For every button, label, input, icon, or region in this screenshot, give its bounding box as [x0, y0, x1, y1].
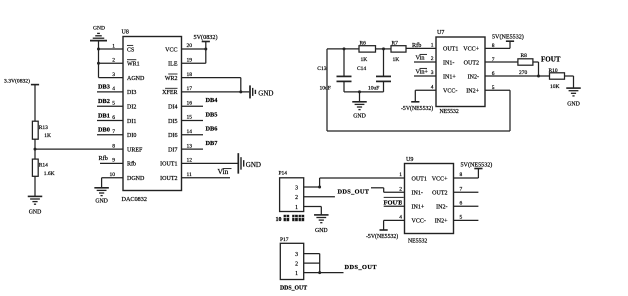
wire (caps to ground) — [359, 92, 361, 102]
wire (U8 pin 5 stub) — [97, 105, 123, 107]
svg-text:GND: GND — [258, 89, 273, 97]
svg-text:VCC-: VCC- — [412, 219, 426, 225]
wire (U7 pin 8 to 5V) — [485, 41, 510, 48]
svg-text:DB3: DB3 — [98, 84, 110, 91]
svg-text:5V(NE5532): 5V(NE5532) — [492, 34, 524, 41]
node (caps ground junction) — [358, 90, 361, 93]
wire (U8 pin 11 IOUT2 stub) — [182, 177, 231, 179]
svg-text:VCC+: VCC+ — [463, 47, 479, 53]
svg-text:6: 6 — [460, 201, 463, 207]
wire (U8 pin 18 WR2 to ground net) — [182, 78, 241, 92]
svg-text:7: 7 — [460, 187, 463, 193]
IC U8 DAC0832 — [110, 30, 193, 204]
wire (U9 pin 6 stub) — [454, 205, 479, 207]
svg-text:Rfb: Rfb — [127, 161, 136, 168]
svg-text:DB7: DB7 — [206, 140, 218, 147]
node (junction pin 20) — [204, 48, 207, 51]
svg-text:DB4: DB4 — [206, 97, 219, 104]
node (divider junction to UREF) — [34, 148, 37, 151]
svg-text:GND: GND — [315, 228, 328, 234]
svg-text:GND: GND — [93, 26, 105, 32]
svg-text:19: 19 — [187, 58, 193, 64]
svg-text:1: 1 — [295, 205, 298, 211]
svg-text:3.3V(0832): 3.3V(0832) — [4, 78, 30, 85]
svg-text:NE5532: NE5532 — [408, 239, 427, 245]
wire (U8 pin 14 stub) — [182, 134, 204, 136]
svg-text:IN1+: IN1+ — [412, 205, 425, 211]
wire (U9 pin 3 stub) — [384, 205, 405, 207]
wire (R14 to ground) — [34, 176, 36, 196]
capacitor C13 10uF — [317, 49, 351, 92]
wire (R13/R14 divider node to U8 pin 8 UREF) — [35, 148, 123, 150]
wire (U8 pin 16 stub) — [182, 105, 204, 107]
op-amp U7 NE5532 — [431, 30, 495, 115]
node (C14 top junction) — [382, 47, 385, 50]
svg-text:WR1: WR1 — [127, 62, 140, 68]
svg-text:P17: P17 — [280, 237, 289, 243]
wire (U8 pin 4 stub) — [97, 91, 123, 93]
svg-text:DI5: DI5 — [168, 119, 177, 125]
ground (below C13/C14) — [352, 102, 367, 120]
svg-text:DI2: DI2 — [127, 105, 136, 111]
svg-text:DB0: DB0 — [98, 127, 110, 134]
svg-text:DDS_OUT: DDS_OUT — [280, 285, 307, 291]
svg-text:XFER: XFER — [162, 90, 177, 96]
svg-text:OUT1: OUT1 — [412, 176, 427, 182]
svg-text:1: 1 — [431, 43, 434, 49]
svg-text:1: 1 — [295, 271, 298, 277]
svg-text:DB2: DB2 — [98, 98, 110, 105]
op-amp U9 NE5532 — [399, 157, 462, 245]
svg-text:GND: GND — [95, 199, 108, 205]
svg-text:ILE: ILE — [168, 62, 178, 68]
svg-text:WR2: WR2 — [165, 76, 178, 82]
svg-text:IOUT1: IOUT1 — [160, 162, 177, 168]
wire (U9 pin 5 stub) — [454, 219, 479, 221]
ground (below P14) — [314, 215, 329, 234]
svg-text:C14: C14 — [357, 66, 366, 72]
svg-text:1K: 1K — [44, 133, 51, 139]
svg-text:DI4: DI4 — [168, 105, 177, 111]
power flag 5V(0832) — [194, 34, 218, 42]
svg-text:DDS_OUT: DDS_OUT — [345, 264, 378, 271]
svg-text:DDS_OUT: DDS_OUT — [338, 188, 370, 195]
svg-text:Rfb: Rfb — [99, 155, 108, 162]
svg-text:1: 1 — [399, 172, 402, 178]
svg-text:15: 15 — [187, 115, 193, 121]
svg-text:Vin: Vin — [416, 55, 425, 62]
svg-text:DI1: DI1 — [127, 119, 136, 125]
svg-text:R7: R7 — [392, 41, 399, 47]
svg-text:UREF: UREF — [127, 147, 143, 153]
svg-text:17: 17 — [187, 86, 193, 92]
node (junction pin2 bus) — [97, 62, 100, 65]
connector P17 — [280, 237, 304, 280]
svg-text:IN2-: IN2- — [468, 74, 479, 80]
svg-text:DB5: DB5 — [206, 111, 218, 118]
svg-text:VCC-: VCC- — [443, 89, 457, 95]
wire (GND bus to U8 pins 1-3) — [99, 41, 124, 78]
svg-text:5V(0832): 5V(0832) — [194, 34, 218, 41]
svg-text:DB6: DB6 — [206, 126, 218, 133]
ground (top-left GND flag above U8) — [90, 26, 107, 41]
ground (right of U8 pin 17) — [250, 85, 273, 98]
svg-text:CS: CS — [127, 47, 134, 53]
node (P14 pin3 corner) — [318, 186, 321, 189]
svg-text:DI3: DI3 — [127, 90, 136, 96]
svg-text:DB1: DB1 — [98, 112, 110, 119]
svg-text:OUT2: OUT2 — [464, 60, 479, 66]
wire (P14 pin 3 up to U9 pin 1) — [304, 178, 405, 187]
wire (R8 to feedback junction) — [533, 62, 539, 76]
svg-text:10: 10 — [276, 217, 282, 223]
wire (feedback loop left/bottom/right to U7 pin 5) — [327, 49, 510, 131]
wire (3.3V to R13) — [34, 85, 36, 122]
wire (U8 pin 15 stub) — [182, 120, 204, 122]
wire (R10 to ground) — [565, 76, 574, 88]
svg-text:5V(NE5532): 5V(NE5532) — [461, 162, 493, 169]
svg-text:2: 2 — [295, 195, 298, 201]
svg-text:-5V(NE5532): -5V(NE5532) — [366, 233, 398, 240]
ground (below U8 pin 10) — [94, 188, 109, 205]
svg-text:4: 4 — [431, 84, 434, 90]
net label FOUT (U9 pin3, overlined) — [384, 197, 404, 206]
svg-text:R13: R13 — [39, 125, 48, 131]
wire (U8 pin 7 stub) — [97, 134, 123, 136]
svg-text:IN2-: IN2- — [436, 205, 447, 211]
wire (U9 pin 7 stub) — [454, 191, 479, 193]
connector P14 — [279, 171, 304, 212]
power flag -5V(NE5532) (U9) — [366, 230, 398, 240]
svg-text:12: 12 — [187, 158, 193, 164]
svg-text:14: 14 — [187, 129, 193, 135]
svg-text:Vin+: Vin+ — [416, 69, 429, 76]
svg-text:10uF: 10uF — [368, 86, 379, 92]
svg-text:R6: R6 — [360, 41, 367, 47]
svg-text:FOUT: FOUT — [541, 56, 561, 64]
net label Vin+ (U7 pin3) — [416, 68, 429, 75]
svg-text:3: 3 — [431, 70, 434, 76]
svg-text:Rfb: Rfb — [412, 42, 421, 49]
svg-text:IN1+: IN1+ — [443, 74, 456, 80]
wire (U8 pins 20,19 to 5V) — [182, 42, 206, 64]
svg-text:10K: 10K — [550, 84, 560, 90]
svg-text:R8: R8 — [521, 53, 528, 59]
svg-text:OUT1: OUT1 — [443, 47, 458, 53]
power flag 5V(NE5532) (U9) — [461, 162, 493, 169]
resistor R10 10K — [549, 68, 565, 90]
wire (U7 pin 6 IN2- rail to R10) — [485, 75, 550, 77]
svg-text:10uF: 10uF — [320, 86, 331, 92]
wire (U8 pin 12 IOUT1 to ground) — [182, 162, 238, 164]
svg-text:FOUT: FOUT — [384, 199, 403, 206]
ground (right of U8 pin 12) — [238, 153, 261, 174]
svg-text:2: 2 — [399, 187, 402, 193]
svg-text:DGND: DGND — [127, 176, 145, 182]
svg-text:DI0: DI0 — [127, 133, 136, 139]
svg-text:R14: R14 — [39, 163, 48, 169]
svg-text:VCC+: VCC+ — [432, 176, 448, 182]
resistor R13 1K — [32, 121, 51, 139]
svg-text:IN2+: IN2+ — [466, 89, 479, 95]
svg-text:5: 5 — [460, 215, 463, 221]
wire (C13/C14 bottom rail) — [344, 91, 384, 93]
svg-text:IN1-: IN1- — [443, 60, 454, 66]
net label 10-pin header (chinese) — [276, 215, 305, 223]
svg-text:13: 13 — [187, 143, 193, 149]
wire (U7 pin 4 to -5V) — [415, 90, 436, 102]
svg-text:1K: 1K — [393, 57, 400, 63]
svg-text:NE5532: NE5532 — [440, 109, 459, 115]
node (junction pin1 bus) — [97, 48, 100, 51]
svg-text:U8: U8 — [122, 30, 129, 36]
svg-text:OUT2: OUT2 — [432, 191, 447, 197]
svg-text:4: 4 — [399, 215, 402, 221]
svg-text:2: 2 — [431, 56, 434, 62]
wire (P14 pin 2 stub) — [304, 196, 335, 198]
svg-text:GND: GND — [246, 161, 261, 169]
svg-text:U7: U7 — [437, 30, 444, 36]
wire (U8 pin 13 stub) — [182, 148, 204, 150]
svg-text:18: 18 — [187, 72, 193, 78]
node (P17 junction) — [318, 271, 321, 274]
wire (U7 pin 3 stub) — [414, 75, 436, 77]
wire (U8 pin 6 stub) — [97, 120, 123, 122]
capacitor C14 10uF — [357, 49, 391, 92]
wire (P17 pins 1-3 common) — [304, 254, 344, 273]
svg-text:GND: GND — [353, 113, 366, 119]
resistor R8 270 — [518, 53, 533, 76]
resistor R14 1.6K — [32, 159, 54, 177]
svg-text:IN2+: IN2+ — [435, 219, 448, 225]
ground (below R14) — [28, 196, 43, 215]
wire (U7 pin 7 OUT2 to R8) — [485, 61, 518, 63]
svg-text:-5V(NE5532): -5V(NE5532) — [401, 105, 433, 112]
wire (U8 pin 17 XFER to ground) — [182, 91, 250, 93]
svg-text:270: 270 — [519, 70, 528, 76]
node (FOUT junction) — [537, 75, 540, 78]
resistor R7 1K — [391, 41, 406, 63]
node (junction pins 17/18) — [239, 90, 242, 93]
svg-text:DAC0832: DAC0832 — [122, 196, 147, 203]
svg-text:AGND: AGND — [127, 76, 145, 82]
net label Vin (U7 pin2) — [416, 54, 428, 61]
svg-text:GND: GND — [567, 101, 580, 107]
svg-text:GND: GND — [29, 210, 42, 216]
wire (R13 to node) — [34, 139, 36, 159]
node (C13 top junction) — [343, 47, 346, 50]
svg-text:U9: U9 — [406, 157, 413, 163]
svg-text:P14: P14 — [279, 171, 288, 177]
svg-text:11: 11 — [187, 172, 193, 178]
power flag 5V(NE5532) (U7) — [492, 34, 524, 42]
svg-text:IOUT2: IOUT2 — [160, 176, 177, 182]
wire (U8 pin 9 stub) — [100, 162, 123, 164]
svg-text:1K: 1K — [361, 57, 368, 63]
svg-text:8: 8 — [460, 172, 463, 178]
svg-text:R10: R10 — [549, 68, 558, 74]
wire (input node top rail) — [327, 47, 436, 50]
svg-text:VCC: VCC — [165, 47, 177, 53]
wire (P14 pin 1 to ground) — [304, 207, 322, 215]
wire (U9 pin 4 to -5V) — [384, 220, 405, 230]
svg-text:20: 20 — [187, 43, 193, 49]
svg-text:16: 16 — [187, 100, 193, 106]
svg-text:3: 3 — [295, 185, 298, 191]
svg-text:IN1-: IN1- — [412, 191, 423, 197]
resistor R6 1K — [359, 41, 376, 63]
wire (U9 pin 2 from DDS_OUT) — [371, 188, 405, 193]
svg-text:3: 3 — [295, 252, 298, 258]
svg-text:DI7: DI7 — [168, 147, 177, 153]
power flag 3.3V(0832) — [4, 78, 39, 85]
net label Vin — [218, 167, 232, 176]
svg-text:1.6K: 1.6K — [44, 171, 55, 177]
wire (U8 pin 10 to ground) — [102, 178, 123, 188]
wire (U7 pin 2 stub) — [414, 61, 436, 63]
svg-text:DI6: DI6 — [168, 133, 177, 139]
svg-text:C13: C13 — [317, 66, 326, 72]
wire (U9 pin 8 to 5V) — [454, 169, 479, 179]
power flag -5V(NE5532) (U7) — [401, 102, 433, 112]
svg-text:2: 2 — [295, 261, 298, 267]
ground (right of R10) — [566, 88, 581, 107]
